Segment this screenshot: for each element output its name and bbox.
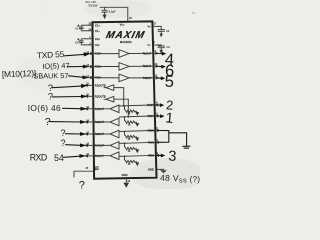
wire handwritten arrow to pin 21	[53, 86, 82, 88]
resistor R3 5k pulldown	[124, 131, 140, 142]
svg-text:R2OUTB: R2OUTB	[95, 94, 106, 98]
capacitor C4	[158, 45, 171, 54]
pin 21 R1OUTB	[84, 83, 106, 88]
op-amp B1 receiver buffer R1OUTB	[104, 85, 114, 91]
svg-text:R1IN: R1IN	[147, 103, 153, 107]
smudge top right	[192, 12, 195, 15]
wire handwritten arrow T3OUT to 5	[159, 77, 162, 79]
svg-text:R4IN: R4IN	[148, 140, 154, 144]
wire handwritten arrow to pin 13	[68, 66, 84, 68]
wire handwritten arrow to pin 16	[66, 144, 81, 147]
pin 6 R3IN	[148, 127, 159, 132]
wire handwritten arrow R1IN to 2	[158, 104, 160, 106]
svg-text:?: ?	[61, 128, 66, 138]
svg-text:RXD: RXD	[30, 152, 47, 162]
svg-text:R5IN: R5IN	[148, 153, 154, 157]
wire B1 input to R1 line	[114, 88, 124, 106]
svg-text:5: 5	[165, 73, 174, 91]
capacitor C2	[75, 38, 83, 45]
wire handwritten arrow to pin 17	[66, 133, 81, 135]
svg-text:GND: GND	[122, 173, 128, 177]
op-amp R3 receiver triangle	[94, 130, 155, 138]
svg-text:1: 1	[165, 110, 175, 127]
pin 5 R2IN	[147, 113, 158, 118]
svg-text:[M10(12)]: [M10(12)]	[2, 68, 36, 79]
pin 11 T3OUT	[143, 75, 160, 80]
wire handwritten arrow R5IN to 3	[159, 154, 162, 156]
svg-text:IO(5) 47: IO(5) 47	[42, 61, 69, 71]
wire B2 input to R2 line	[114, 99, 129, 117]
wire handwritten arrow to pin 15	[64, 156, 81, 157]
pin 8 T1OUT	[142, 50, 159, 55]
svg-text:EN: EN	[95, 167, 99, 171]
pin 18 R2OUT	[84, 119, 104, 124]
pin 24 C1-	[81, 28, 100, 33]
capacitor C5 bypass 0.1uF	[102, 7, 116, 19]
svg-text:C1−: C1−	[95, 29, 100, 33]
wire handwritten arrow T1OUT to 4	[159, 53, 163, 55]
wire handwritten arrow R2IN to 1	[158, 115, 160, 117]
pin 13 T2IN	[85, 64, 101, 69]
svg-text:3: 3	[168, 149, 177, 165]
pin GND right with earth ground	[148, 167, 167, 172]
svg-text:54: 54	[54, 153, 64, 163]
ground handwritten earth	[183, 146, 190, 148]
svg-text:MAXIM: MAXIM	[105, 30, 146, 41]
op-amp R1 receiver triangle	[94, 105, 154, 113]
pin 25 EN (active low) with wire	[74, 167, 99, 178]
pin 17 R3OUT	[84, 131, 104, 136]
transistor buffer T2 transmitter triangle	[94, 63, 153, 71]
wire handwritten arrow to pin 18	[50, 121, 81, 123]
svg-text:T2OUT: T2OUT	[142, 64, 151, 68]
pin 7 R4IN	[148, 139, 159, 144]
svg-text:0.1μF: 0.1μF	[109, 10, 116, 13]
svg-text:GND: GND	[148, 167, 154, 171]
pin GND bottom with ground	[122, 173, 131, 188]
op-amp B2 receiver buffer R2OUTB	[104, 96, 114, 102]
svg-text:R1OUTB: R1OUTB	[95, 83, 106, 87]
wire VCC rail to pin 26	[100, 7, 128, 21]
pin 3 C2-	[81, 42, 100, 47]
pin 19 R1OUT	[84, 106, 104, 111]
svg-text:T3OUT: T3OUT	[143, 76, 152, 80]
resistor R4 5k pulldown	[124, 143, 140, 154]
pin 20 R2OUTB	[84, 94, 106, 99]
resistor R1 5k pulldown	[124, 105, 140, 116]
pin 28 C1+	[81, 23, 100, 28]
pin 1 C2+	[81, 36, 100, 41]
wire handwritten bracket R3IN R4IN to ground	[159, 131, 169, 143]
svg-text:V+: V+	[148, 24, 152, 28]
svg-text:?: ?	[79, 180, 85, 189]
node VCC supply label	[85, 1, 98, 7]
resistor R5 5k pulldown	[124, 156, 140, 167]
pin 10 T2OUT	[142, 63, 159, 68]
svg-text:C2−: C2−	[95, 43, 100, 47]
svg-text:C1+: C1+	[95, 23, 100, 27]
svg-text:V−: V−	[148, 43, 152, 47]
svg-text:SBAUK 57: SBAUK 57	[33, 71, 68, 81]
svg-text:MAX3241: MAX3241	[120, 40, 132, 44]
svg-text:R2IN: R2IN	[147, 114, 153, 118]
op-amp R4 receiver triangle	[94, 142, 155, 150]
op-amp U1 chip outline MAX3241	[92, 21, 156, 178]
pin 14 T1IN	[85, 51, 101, 56]
capacitor C1	[75, 25, 83, 31]
op-amp R2 receiver triangle	[94, 116, 155, 126]
svg-text:C2+: C2+	[95, 37, 100, 41]
svg-text:T1OUT: T1OUT	[142, 51, 151, 55]
transistor buffer T3 transmitter triangle	[94, 74, 153, 82]
wire handwritten arrow T2OUT to 6	[159, 65, 162, 67]
wire handwritten arrow to pin 14	[65, 54, 85, 55]
op-amp R5 receiver triangle	[94, 152, 155, 160]
svg-text:?: ?	[61, 138, 66, 148]
svg-text:R3IN: R3IN	[148, 128, 154, 132]
pin 27 V+	[148, 23, 159, 29]
pin 16 R4OUT	[84, 143, 104, 148]
resistor R2 5k pulldown	[124, 116, 140, 127]
wire handwritten arrow to pin 20	[53, 96, 82, 98]
pin 12 T3IN	[85, 75, 101, 80]
svg-text:?: ?	[45, 116, 51, 128]
svg-text:TXD 55: TXD 55	[37, 49, 65, 60]
capacitor C3	[158, 26, 170, 37]
svg-text:TO 5.5V: TO 5.5V	[88, 4, 98, 7]
svg-text:IO(6) 46: IO(6) 46	[28, 103, 61, 113]
wire handwritten arrow to pin 12	[69, 76, 84, 78]
pin 1 V-	[148, 41, 159, 47]
pin 2 R5IN	[148, 152, 159, 157]
pin 4 R1IN	[147, 102, 158, 107]
pin 15 R5OUT	[84, 153, 104, 158]
transistor buffer T1 transmitter triangle	[94, 50, 153, 58]
wire handwritten arrow to pin 19	[63, 107, 82, 109]
